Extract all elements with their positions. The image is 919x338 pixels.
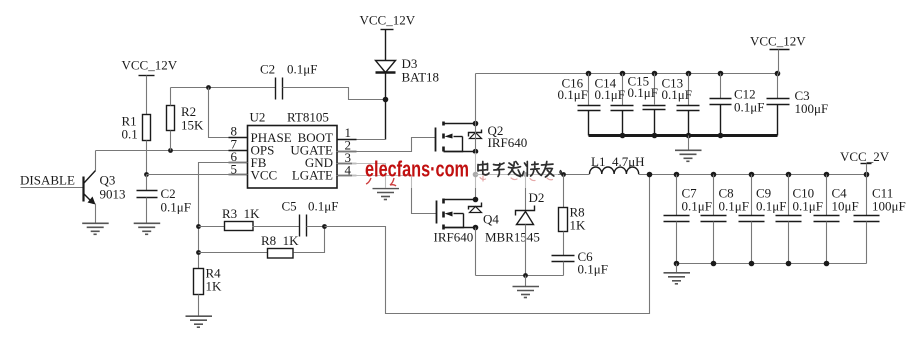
power VCC_12V (right) bbox=[750, 34, 806, 74]
node Q2 drain junction bbox=[473, 121, 479, 127]
wire output rail to ground bbox=[676, 264, 678, 273]
wire R4 to ground bbox=[198, 295, 200, 316]
power VCC_12V (above D3) bbox=[360, 13, 416, 30]
pin number 2 bbox=[337, 138, 357, 153]
svg-text:0.1μF: 0.1μF bbox=[756, 199, 786, 214]
svg-text:0.1μF: 0.1μF bbox=[558, 87, 588, 102]
wire BOOT pin 1 bbox=[337, 139, 386, 141]
ground (cap bank) bbox=[675, 150, 702, 161]
capacitor C14 bbox=[595, 74, 634, 136]
node R2 bottom junction bbox=[168, 148, 173, 153]
svg-text:DISABLE: DISABLE bbox=[20, 173, 75, 188]
svg-text:0.1μF: 0.1μF bbox=[595, 87, 625, 102]
wire phase line to L1 bbox=[476, 174, 590, 176]
wire LGATE pin 4 to Q4 gate bbox=[337, 176, 437, 214]
svg-text:U2: U2 bbox=[250, 110, 266, 125]
svg-text:VCC_12V: VCC_12V bbox=[122, 58, 178, 73]
capacitor C2 (top) bbox=[260, 62, 317, 100]
capacitor C5 bbox=[282, 199, 339, 237]
node bottom rail C9 bbox=[749, 261, 755, 267]
wire node to C2 bbox=[146, 175, 148, 191]
ground (output bank) bbox=[664, 273, 691, 284]
svg-text:15K: 15K bbox=[181, 118, 204, 133]
wire Q3 collector up to OPS line bbox=[95, 151, 97, 171]
svg-text:100μF: 100μF bbox=[872, 199, 906, 214]
svg-text:0.1μF: 0.1μF bbox=[287, 62, 317, 77]
wire feedback to output rail bbox=[325, 175, 650, 314]
wire OPS net (pin 7) bbox=[96, 150, 248, 152]
wire D2 bottom bbox=[525, 225, 527, 276]
wire Q2 drain riser to top rail bbox=[475, 74, 477, 124]
node feedback tap bbox=[647, 172, 653, 178]
wire DISABLE to Q3 base bbox=[21, 187, 84, 189]
node PHASE drop junction bbox=[206, 85, 211, 90]
wire PHASE drop bbox=[209, 88, 248, 138]
wire bottom net Q4/D2/C6 bbox=[476, 275, 564, 277]
node C13 top bbox=[686, 71, 692, 77]
node bottom rail C10 bbox=[786, 261, 792, 267]
node C12 top bbox=[718, 71, 724, 77]
node C15 top bbox=[652, 71, 658, 77]
capacitor C6 bbox=[552, 249, 608, 277]
wire Q3 emitter to ground bbox=[95, 204, 97, 223]
svg-text:Q3: Q3 bbox=[100, 173, 116, 188]
capacitor C3 bbox=[767, 74, 829, 136]
node VCC/C3 top junction bbox=[775, 71, 781, 77]
node phase junction bbox=[473, 172, 479, 178]
node C9 top bbox=[749, 172, 755, 178]
node bottom rail C7 bbox=[674, 261, 680, 267]
transistor Q3 bbox=[84, 171, 126, 205]
svg-text:100μF: 100μF bbox=[795, 101, 829, 116]
node C8 top bbox=[711, 172, 717, 178]
wire R8 to C6 bbox=[563, 232, 565, 256]
svg-text:LGATE: LGATE bbox=[292, 168, 333, 183]
watermark halo bbox=[352, 153, 558, 188]
svg-text:RT8105: RT8105 bbox=[287, 110, 329, 125]
diode D3 bbox=[376, 56, 440, 85]
node bottom rail C12 bbox=[718, 133, 724, 139]
node bottom rail C4 bbox=[824, 261, 830, 267]
resistor R2 bbox=[167, 104, 205, 133]
svg-text:VCC: VCC bbox=[251, 168, 278, 183]
node FB/R3 junction bbox=[196, 224, 201, 229]
wire FB to R8 bbox=[199, 252, 268, 254]
diode body Q2 bbox=[469, 130, 482, 139]
watermark chinese characters bbox=[478, 162, 561, 177]
ground (C2 lower) bbox=[134, 223, 161, 234]
svg-text:elecfans·com: elecfans·com bbox=[365, 157, 469, 182]
svg-text:0.1μF: 0.1μF bbox=[682, 199, 712, 214]
ground (IC GND) bbox=[373, 189, 400, 200]
capacitor C11 bbox=[854, 175, 906, 264]
wire R8 to junction riser bbox=[294, 227, 325, 253]
transistor Q2 bbox=[436, 122, 528, 152]
wire GND pin 3 to ground bbox=[337, 164, 386, 189]
node R8 snubber top junction bbox=[561, 172, 566, 177]
svg-text:D2: D2 bbox=[529, 190, 545, 205]
op-amp U1 IC U2 RT8105 bbox=[248, 110, 338, 189]
node bottom rail C14 bbox=[620, 133, 626, 139]
svg-text:0.1μF: 0.1μF bbox=[578, 262, 608, 277]
pin number 7 bbox=[229, 137, 248, 152]
svg-text:R3 1K: R3 1K bbox=[222, 206, 260, 221]
node Q2 source junction bbox=[473, 149, 479, 155]
node Q4 source junction bbox=[473, 225, 479, 231]
svg-text:0.1μF: 0.1μF bbox=[662, 87, 692, 102]
pin number 8 bbox=[229, 124, 248, 139]
inductor L1 bbox=[590, 154, 645, 174]
node C10 top bbox=[786, 172, 792, 178]
power VCC_12V (left) bbox=[122, 58, 178, 76]
svg-text:C2: C2 bbox=[260, 62, 275, 77]
svg-text:R8 1K: R8 1K bbox=[261, 233, 299, 248]
wire R8 snubber top lead bbox=[563, 175, 565, 208]
wire C6 bottom bbox=[563, 262, 565, 276]
transistor Q4 bbox=[434, 199, 500, 245]
wire D2 top bbox=[525, 175, 527, 211]
resistor R3 bbox=[222, 206, 260, 231]
wire FB pin 6 down column bbox=[199, 163, 248, 269]
resistor R8 (feedback) bbox=[261, 233, 299, 258]
node C7 top bbox=[674, 172, 680, 178]
svg-text:VCC_2V: VCC_2V bbox=[840, 149, 890, 164]
svg-text:BAT18: BAT18 bbox=[402, 70, 440, 85]
node FB/R8 junction bbox=[196, 250, 201, 255]
svg-text:C5: C5 bbox=[282, 199, 297, 214]
ground (Q3 emitter) bbox=[82, 223, 109, 234]
capacitor C9 bbox=[739, 175, 787, 264]
node BOOT/D3 junction bbox=[383, 97, 389, 103]
wire L1 to output rail bbox=[639, 174, 867, 176]
wire VCC_12V to R1 bbox=[146, 76, 148, 115]
wire FB to R3 bbox=[199, 226, 225, 228]
svg-text:VCC_12V: VCC_12V bbox=[360, 13, 416, 28]
power VCC_2V bbox=[840, 149, 890, 175]
resistor R8 (snubber) bbox=[559, 205, 587, 233]
wire C2 top to BOOT node bbox=[283, 88, 386, 100]
node DISABLE label bbox=[20, 173, 75, 188]
wire top bank bottom rail bbox=[589, 134, 778, 137]
pin number 4 bbox=[337, 163, 357, 178]
svg-text:9013: 9013 bbox=[100, 187, 126, 202]
pin number 3 bbox=[337, 150, 357, 165]
wire phase column bbox=[475, 124, 477, 200]
node R1/C2/VCC junction bbox=[144, 172, 149, 177]
wire VCC to D3 bbox=[385, 30, 387, 61]
capacitor C16 bbox=[558, 74, 601, 136]
wire VCC pin 5 bbox=[147, 174, 248, 176]
capacitor C4 bbox=[814, 175, 859, 264]
svg-text:0.1μF: 0.1μF bbox=[308, 199, 338, 214]
svg-text:MBR1545: MBR1545 bbox=[485, 230, 540, 245]
pin number 5 bbox=[229, 162, 248, 177]
wire Q4 source down bbox=[475, 228, 477, 276]
pin number 6 bbox=[229, 149, 248, 164]
diode body Q4 bbox=[469, 203, 482, 213]
capacitor C2 (lower) bbox=[137, 186, 191, 215]
wire bottom rail to ground bbox=[688, 136, 690, 150]
svg-text:IRF640: IRF640 bbox=[488, 135, 528, 150]
wire D3 to BOOT pin bbox=[385, 73, 387, 140]
ground (D2) bbox=[513, 287, 540, 298]
node D2 top junction bbox=[523, 172, 528, 177]
wire output bank bottom rail bbox=[677, 263, 867, 265]
pin number 1 bbox=[337, 125, 357, 140]
capacitor C13 bbox=[662, 74, 700, 136]
svg-text:0.1: 0.1 bbox=[122, 127, 138, 142]
wire C2 to ground bbox=[146, 198, 148, 223]
svg-text:L1 4.7μH: L1 4.7μH bbox=[591, 154, 645, 169]
diode D2 bbox=[485, 190, 544, 245]
resistor R1 bbox=[122, 114, 151, 142]
node C14 top bbox=[620, 71, 626, 77]
resistor R4 bbox=[194, 266, 223, 295]
node C4 top bbox=[824, 172, 830, 178]
capacitor C7 bbox=[664, 175, 712, 264]
capacitor C15 bbox=[628, 74, 666, 136]
watermark elecfans.com logo bbox=[365, 157, 469, 187]
wire R1 to VCC pin node bbox=[146, 141, 148, 175]
svg-text:1K: 1K bbox=[570, 218, 587, 233]
svg-text:0.1μF: 0.1μF bbox=[628, 85, 658, 100]
svg-text:0.1μF: 0.1μF bbox=[161, 200, 191, 215]
wire C5 to junction bbox=[307, 226, 325, 228]
node Q4 drain junction bbox=[473, 197, 479, 203]
wire R3 to C5 bbox=[253, 226, 300, 228]
svg-text:IRF640: IRF640 bbox=[434, 230, 474, 245]
svg-text:Q4: Q4 bbox=[483, 212, 499, 227]
wire R2 bottom lead bbox=[170, 131, 172, 151]
node bottom rail C13 bbox=[686, 133, 692, 139]
wire UGATE pin 2 to Q2 gate bbox=[337, 138, 436, 152]
watermark red echo strokes bbox=[480, 176, 553, 181]
capacitor C12 bbox=[710, 74, 765, 136]
svg-text:0.1μF: 0.1μF bbox=[719, 199, 749, 214]
wire R2 top lead bbox=[170, 88, 172, 106]
svg-text:0.1μF: 0.1μF bbox=[734, 100, 764, 115]
node C11 top bbox=[864, 172, 870, 178]
node C16 top bbox=[586, 71, 592, 77]
node bottom rail C15 bbox=[652, 133, 658, 139]
svg-text:10μF: 10μF bbox=[832, 199, 859, 214]
wire top rail 12V bbox=[476, 73, 778, 75]
svg-text:0.1μF: 0.1μF bbox=[793, 199, 823, 214]
capacitor C8 bbox=[701, 175, 749, 264]
capacitor C10 bbox=[776, 175, 823, 264]
node C5/R8 junction bbox=[322, 224, 327, 229]
svg-text:VCC_12V: VCC_12V bbox=[750, 34, 806, 49]
wire R2 to C2 top net bbox=[171, 87, 276, 89]
node D2 bottom junction bbox=[523, 273, 528, 278]
node bottom rail C8 bbox=[711, 261, 717, 267]
svg-text:1K: 1K bbox=[206, 279, 223, 294]
wire D2 junction to ground bbox=[525, 276, 527, 287]
ground (R4) bbox=[186, 316, 213, 327]
